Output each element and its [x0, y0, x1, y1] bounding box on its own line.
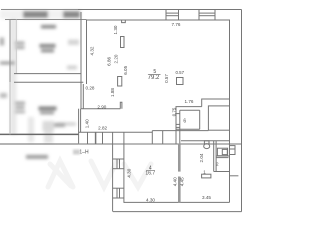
svg-text:1.40: 1.40	[85, 119, 90, 128]
pilaster P1	[121, 37, 125, 48]
blurred partition stub	[68, 40, 79, 46]
blurred faint stub	[67, 66, 77, 70]
wc tank	[204, 141, 209, 144]
svg-text:4.32: 4.32	[89, 46, 94, 55]
svg-text:4.40: 4.40	[173, 177, 178, 186]
svg-text:4.30: 4.30	[127, 168, 132, 177]
top inner wall	[87, 19, 231, 21]
svg-text:2.04: 2.04	[199, 153, 204, 162]
svg-text:0.75: 0.75	[172, 107, 177, 116]
left apartment walls (crisp)	[0, 134, 79, 144]
room divider wall 4|3	[178, 143, 181, 171]
sanitary shelf line	[216, 155, 229, 157]
svg-text:2.90: 2.90	[97, 104, 106, 109]
pilaster P2	[118, 77, 122, 87]
right wall sink	[230, 146, 236, 155]
svg-text:3.45: 3.45	[202, 195, 211, 200]
top door jamb U	[122, 20, 126, 23]
svg-text:4.45: 4.45	[180, 177, 185, 186]
room6 bottom wall	[176, 128, 200, 130]
blurred label blobs	[0, 38, 4, 46]
blurred window left	[23, 11, 48, 18]
svg-text:1.76: 1.76	[185, 99, 194, 104]
column 0.57	[177, 78, 184, 85]
hall left wall	[78, 109, 80, 144]
watermark	[48, 161, 151, 187]
right outer wall	[241, 10, 243, 212]
shaft square	[208, 106, 229, 130]
svg-text:79.2: 79.2	[148, 75, 160, 81]
room4 left wall	[113, 132, 124, 211]
svg-text:1.88: 1.88	[110, 88, 115, 97]
room6 right wall	[199, 110, 201, 129]
shaft ladder wall	[176, 107, 180, 144]
svg-text:4.30: 4.30	[146, 198, 155, 203]
right inner wall	[229, 20, 231, 202]
low fixture	[202, 174, 211, 178]
svg-text:1.30: 1.30	[113, 25, 118, 34]
svg-text:2.20: 2.20	[114, 54, 119, 63]
blurred dim text	[41, 25, 56, 28]
svg-text:6.86: 6.86	[107, 56, 112, 65]
wc bowl	[204, 144, 210, 149]
svg-text:6.05: 6.05	[123, 65, 128, 74]
svg-text:0.28: 0.28	[86, 85, 95, 90]
main crisp plan	[14, 10, 242, 212]
corridor top wall left	[79, 131, 153, 133]
blurred window right	[63, 11, 80, 18]
corridor bottom wall	[79, 143, 242, 145]
blurred window bands in bottom wall	[28, 117, 34, 142]
sink block	[217, 148, 227, 156]
top outer wall	[78, 9, 242, 11]
svg-text:5: 5	[153, 69, 156, 75]
blurred left apartment	[0, 10, 81, 159]
corridor jamb ticks	[87, 132, 89, 144]
bottom outer wall	[113, 211, 242, 213]
svg-text:2.82: 2.82	[98, 126, 107, 131]
blurred outer left wall shading	[10, 19, 16, 135]
svg-text:1–Н: 1–Н	[79, 149, 89, 155]
sink bowl	[222, 149, 227, 154]
svg-text:7.76: 7.76	[172, 22, 181, 27]
window W2	[199, 10, 215, 21]
room5 bottom wall	[81, 108, 120, 110]
blurred wall stub left	[0, 62, 15, 65]
left apartment top wall crisp	[1, 10, 87, 135]
svg-text:0.57: 0.57	[164, 74, 169, 83]
left rooms divider wall	[14, 73, 81, 75]
sanitary top wall	[181, 140, 230, 142]
svg-text:16.7: 16.7	[145, 171, 155, 177]
svg-text:6: 6	[183, 118, 186, 124]
room6 top wall	[176, 106, 202, 108]
left outer wall crisp	[9, 20, 11, 83]
bottom inner wall	[124, 201, 230, 203]
door jamb	[120, 102, 122, 108]
blurred top wall shading	[0, 10, 81, 19]
corridor top wall right	[152, 130, 208, 132]
room5 left wall outer	[80, 12, 82, 109]
blurred faint stub	[57, 123, 76, 126]
sanitary bottom wall	[214, 171, 230, 173]
svg-text:0.57: 0.57	[176, 70, 185, 75]
step wall	[202, 99, 230, 107]
window W1	[166, 10, 179, 21]
blurred label blobs mid	[0, 93, 7, 98]
sanitary mid wall	[214, 141, 216, 172]
room5 left wall inner	[86, 20, 88, 84]
thin partition below	[82, 84, 84, 109]
blurred bottom-left word blob	[26, 155, 48, 159]
niche line	[230, 175, 239, 177]
